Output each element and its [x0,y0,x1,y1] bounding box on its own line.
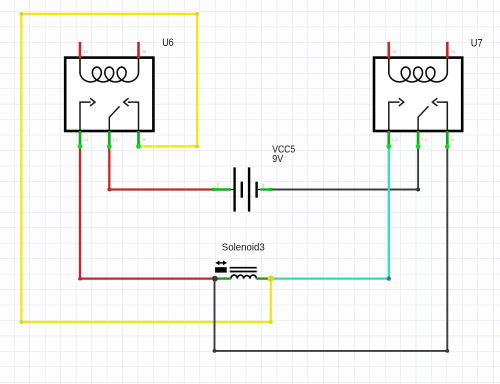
solenoid left pin wire (green) [217,277,231,279]
battery VCC5 [212,167,273,211]
relay U6 [65,42,153,149]
wire dark bottom horizontal [215,350,448,352]
wire yellow left vertical [20,14,22,322]
wire red to battery minus [109,188,212,190]
wire yellow: U6 pin right segment [21,14,270,322]
red bend dots [78,188,111,281]
wire red: U6 left pin down [80,146,215,278]
wire yellow bottom horizontal [21,321,270,323]
wire red: U6 middle pin down [108,146,110,189]
wire dark up to U7 right pin [446,146,448,351]
coil humps [231,275,257,279]
wire dark: battery plus to U7 middle pin [215,146,448,351]
solenoid Solenoid3 [215,261,268,279]
svg-text:Solenoid3: Solenoid3 [222,242,265,254]
svg-text:1: 1 [262,184,265,190]
core lines [230,267,257,269]
wire cyan to solenoid right [271,277,389,279]
svg-text:9V: 9V [272,153,283,165]
junction node solenoid left [212,276,218,282]
cyan bend dot (blue) [387,276,391,280]
wire cyan: U7 left pin down [271,146,389,278]
plunger travel arrow [218,262,224,264]
wire yellow top horizontal [21,13,197,15]
battery pin 2 (left) [231,189,234,191]
relay U7 [374,42,462,149]
wire yellow vertical right [196,14,198,147]
battery pin 1 (right) [258,189,261,191]
junction node solenoid right (yellow) [268,276,274,282]
wire yellow rise to solenoid [270,279,272,322]
solenoid right pin wire (green) [256,277,268,279]
svg-text:2: 2 [216,184,219,190]
svg-text:U7: U7 [471,37,483,49]
plunger block [215,267,227,272]
yellow bend dots [20,12,273,324]
wire dark: solenoid junction down [214,279,216,351]
battery plates [233,167,235,211]
wire red to solenoid junction [80,277,215,279]
dark bend dots [213,188,450,353]
svg-text:U6: U6 [162,37,174,49]
